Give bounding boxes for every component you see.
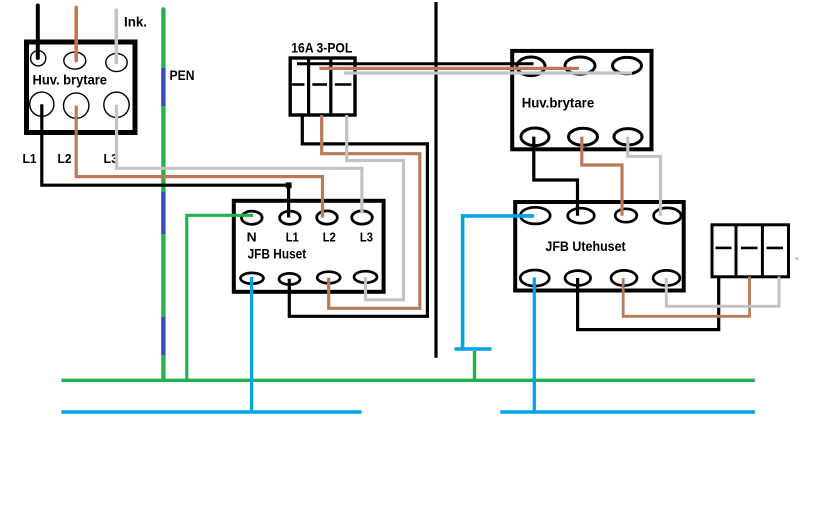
label L2 node xyxy=(58,151,72,166)
pin label L1 xyxy=(286,230,299,245)
net: neutral bus outbuilding side (blue horizontal) xyxy=(500,410,755,413)
wire: L1 drop into JFB Huset (black) xyxy=(287,185,290,217)
svg-text:L1: L1 xyxy=(286,230,299,245)
wire: L3 run U1 to JFB Huset (grey) xyxy=(117,105,362,214)
label JFB Huset xyxy=(248,246,307,262)
svg-text:Ink.: Ink. xyxy=(124,13,147,29)
wire: L2 run U1 to JFB Huset (brown) xyxy=(76,106,322,218)
wire: boundary divider line between house and outbuilding xyxy=(434,2,437,358)
wire: 16A pole 2 to U2 terminal (brown) xyxy=(320,67,580,70)
wire: JFB Huset N down to neutral bus (blue) xyxy=(250,277,253,412)
svg-text:L1: L1 xyxy=(23,151,37,166)
RCD JFB Huset box xyxy=(234,201,384,292)
wire: 16A pole 3 to U2 terminal (grey) xyxy=(344,71,632,74)
net: earth bus (green horizontal) xyxy=(62,379,755,382)
wire: U2 out L2 to JFB Utehuset (brown) xyxy=(582,137,622,216)
PEN conductor (green with blue marks) vertical xyxy=(161,9,165,380)
wire: U2 out L3 to JFB Utehuset (grey) xyxy=(628,137,661,216)
wire: JFB Huset L3 out to 16A pole 3 (grey) xyxy=(347,115,404,300)
label JFB Utehuset xyxy=(545,238,626,254)
label Ink. (incoming feed) xyxy=(124,13,147,29)
label Huv.brytare (outbuilding) xyxy=(522,95,595,111)
node: N-PE bond bar (blue) xyxy=(455,347,492,351)
U1 terminal circles bottom row xyxy=(30,92,130,118)
svg-text:L3: L3 xyxy=(360,230,373,245)
JFB Utehuset terminals bottom row xyxy=(520,270,680,286)
main switch U2 Huv.brytare (outbuilding) box xyxy=(512,51,651,149)
svg-text:L2: L2 xyxy=(323,230,336,245)
breaker F1 16A 3-POL box xyxy=(290,58,355,115)
JFB Utehuset terminals top row xyxy=(520,207,681,224)
U2 terminals bottom row xyxy=(521,128,642,146)
wire: JFB Utehuset N down to neutral bus (blue) xyxy=(533,278,536,413)
pin label N xyxy=(247,230,257,245)
svg-text:PEN: PEN xyxy=(170,67,195,83)
wire: incoming service L2 (brown) xyxy=(74,7,78,60)
svg-text:N: N xyxy=(247,230,257,245)
wire: 16A pole 1 to U2 terminal (black) xyxy=(297,64,532,66)
U1 terminal circles top row xyxy=(31,51,128,72)
wire: JFB Huset L2 out to 16A pole 2 (brown) xyxy=(322,115,420,308)
wire: incoming service L3 (grey) xyxy=(115,10,119,62)
svg-text:Huv. brytare: Huv. brytare xyxy=(33,72,108,88)
wire: neutral feed to JFB Utehuset N (blue) xyxy=(463,216,534,349)
svg-text:JFB Huset: JFB Huset xyxy=(248,246,307,262)
wire: L1 run U1 to JFB Huset (black) xyxy=(42,104,289,185)
net: neutral bus house side (blue horizontal) xyxy=(62,410,362,413)
wire: JFB Huset L1 out to 16A pole 1 (black) xyxy=(289,115,427,316)
label L3 node xyxy=(104,151,119,166)
label L1 node xyxy=(23,151,37,166)
JFB Huset terminals bottom row xyxy=(241,271,378,284)
wire: PEN to JFB Huset N terminal (green) xyxy=(187,215,253,380)
RCD JFB Utehuset box xyxy=(515,202,684,291)
pin label L3 xyxy=(360,230,373,245)
breaker group F2 (outbuilding 3-pole) box xyxy=(712,225,789,277)
svg-text:L2: L2 xyxy=(58,151,72,166)
main switch U1 Huv. brytare (house) box xyxy=(27,42,136,133)
junction dot on L1 run xyxy=(286,182,292,188)
svg-text:16A 3-POL: 16A 3-POL xyxy=(291,39,352,55)
label Huv. brytare (house main switch) xyxy=(33,72,108,88)
stray grey mark right of F2 xyxy=(795,257,798,260)
svg-text:JFB Utehuset: JFB Utehuset xyxy=(545,238,626,254)
wire: JFB Utehuset L1 out to F2 pole 1 (black) xyxy=(578,277,719,330)
JFB Huset terminals top row (N L1 L2 L3) xyxy=(242,211,373,224)
wire: U2 out L1 to JFB Utehuset (black) xyxy=(534,137,578,216)
U2 terminals top row xyxy=(517,57,642,76)
label 16A 3-POL xyxy=(291,39,352,55)
svg-text:Huv.brytare: Huv.brytare xyxy=(522,95,595,111)
wire: JFB Utehuset L2 out to F2 pole 2 (brown) xyxy=(623,277,749,317)
pin label L2 xyxy=(323,230,336,245)
wire: incoming service L1 (black) xyxy=(36,6,40,59)
label PEN xyxy=(170,67,195,83)
wire: JFB Utehuset L3 out to F2 pole 3 (grey) xyxy=(666,277,779,307)
wire: bond to earth bus (green) xyxy=(473,351,476,380)
